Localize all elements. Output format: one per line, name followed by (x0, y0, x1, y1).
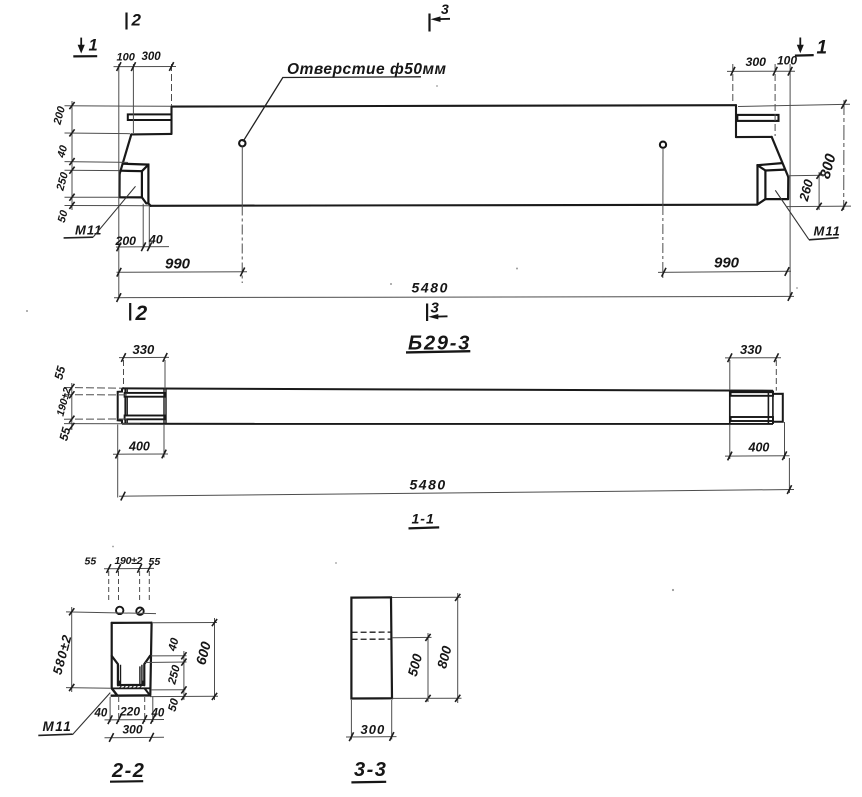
svg-text:3-3: 3-3 (354, 759, 387, 781)
bottom slab (112, 688, 118, 695)
dim 990 right (658, 271, 791, 272)
section mark 3 bottom (426, 304, 428, 322)
svg-text:300: 300 (123, 723, 143, 737)
dim 100/300 top-left (114, 64, 177, 299)
beam bottom edge (151, 205, 758, 206)
svg-text:1-1: 1-1 (412, 511, 435, 527)
svg-text:330: 330 (133, 342, 155, 357)
hole callout leader (243, 77, 421, 142)
right end slant face (772, 137, 789, 177)
svg-text:220: 220 (119, 705, 140, 719)
svg-text:М11: М11 (814, 224, 841, 239)
hole left (f50) (239, 140, 245, 146)
left chain 55/190/55 (1-1) (64, 383, 140, 430)
beam top edge (172, 105, 737, 106)
left support bracket M11 (120, 164, 151, 206)
left channel web (125, 389, 127, 424)
dim 260 right (818, 172, 820, 210)
left dimension chain 200/40/250/50 (65, 101, 172, 210)
dim 400 left (1-1) (113, 424, 168, 497)
svg-text:2: 2 (131, 11, 142, 30)
dim 330 right (1-1) (725, 358, 781, 391)
svg-text:1: 1 (817, 38, 828, 59)
section 3-3 outline (351, 597, 392, 698)
bar left end face (118, 388, 122, 423)
right notch ledge (736, 136, 772, 138)
cavity liner double lines (121, 665, 142, 685)
svg-text:М11: М11 (75, 223, 102, 238)
anchor loop right (136, 608, 143, 615)
svg-text:55: 55 (149, 556, 161, 568)
section 2-2 outline (112, 623, 152, 696)
dim 300/100 top-right (727, 64, 795, 299)
left notch vertical (170, 107, 172, 134)
section mark 2 top (125, 13, 127, 30)
dim 600 (2-2) (214, 618, 216, 700)
svg-text:55: 55 (85, 556, 97, 568)
hole dashed lines (352, 631, 392, 633)
svg-text:40: 40 (148, 233, 163, 247)
svg-text:400: 400 (748, 441, 770, 455)
svg-text:3: 3 (441, 1, 449, 17)
dim 580±2 (2-2) (71, 607, 73, 692)
right channel top bar (731, 392, 773, 396)
bar bottom edge (122, 423, 773, 425)
right channel web (768, 391, 773, 424)
svg-text:5480: 5480 (412, 280, 450, 296)
hole right (f50) (660, 142, 666, 148)
dim 800 right (843, 100, 845, 210)
svg-text:Отверстие ф50мм: Отверстие ф50мм (287, 61, 447, 78)
bar top edge (122, 388, 773, 390)
dim 800 (3-3) (457, 593, 459, 703)
svg-text:990: 990 (714, 255, 740, 272)
hole left centerline (241, 147, 243, 206)
hole right centerline (662, 148, 664, 205)
anchor loop left (116, 607, 123, 614)
cavity floor lines (118, 684, 144, 686)
right chain 40/250/50 (2-2) (145, 651, 218, 700)
left channel top bar (125, 393, 165, 397)
dim 5480 elevation (114, 296, 794, 297)
dim 330 left (1-1) (119, 357, 169, 388)
svg-text:400: 400 (128, 440, 150, 454)
dim 5480 (1-1) (788, 458, 790, 493)
svg-text:300: 300 (142, 51, 162, 63)
svg-text:990: 990 (165, 256, 191, 273)
ext line 580 top (66, 612, 156, 614)
dim 300 bottom (2-2) (105, 736, 165, 739)
channel flange stubs (119, 681, 143, 685)
right channel bottom bar (731, 417, 773, 421)
right notch vertical (735, 105, 737, 137)
dim 400 right (1-1) (725, 422, 790, 459)
scan specks (26, 85, 798, 591)
cavity chamfers and walls (112, 656, 118, 685)
svg-text:100: 100 (117, 51, 136, 63)
dim 500 (3-3) (427, 633, 429, 702)
svg-text:300: 300 (361, 722, 386, 737)
dim 40/220/40 bottom (2-2) (105, 697, 165, 722)
section mark 1 top-left (80, 38, 82, 47)
left end slant face (120, 134, 132, 174)
svg-text:330: 330 (740, 342, 762, 357)
svg-text:2-2: 2-2 (111, 760, 145, 782)
svg-text:1: 1 (89, 37, 98, 55)
svg-text:100: 100 (777, 54, 797, 68)
dim 55/190/55 top (2-2) (104, 568, 154, 603)
svg-text:3: 3 (431, 300, 440, 317)
right embedded plate (737, 115, 778, 121)
left block boundary verticals (164, 389, 166, 424)
floor hatch (120, 685, 143, 688)
svg-text:200: 200 (115, 234, 137, 248)
svg-text:5480: 5480 (410, 477, 447, 493)
left embedded plate (128, 114, 172, 120)
section mark 2 bottom (129, 303, 131, 321)
right support bracket M11 (758, 163, 789, 204)
right block boundary vertical (729, 390, 731, 424)
dim 990 left (117, 271, 248, 274)
svg-text:190±2: 190±2 (115, 555, 143, 567)
dim 300 (3-3) (350, 700, 352, 740)
left channel bottom bar (125, 416, 165, 420)
dim 200/40 bottom-left (116, 204, 169, 248)
svg-text:М11: М11 (43, 719, 73, 734)
svg-text:2: 2 (135, 302, 148, 325)
bar right end face (773, 391, 783, 424)
section mark 1 top-right (799, 38, 801, 47)
section mark 3 top (428, 14, 430, 32)
svg-text:40: 40 (151, 708, 165, 720)
left notch ledge (131, 133, 171, 136)
svg-text:300: 300 (746, 55, 767, 69)
